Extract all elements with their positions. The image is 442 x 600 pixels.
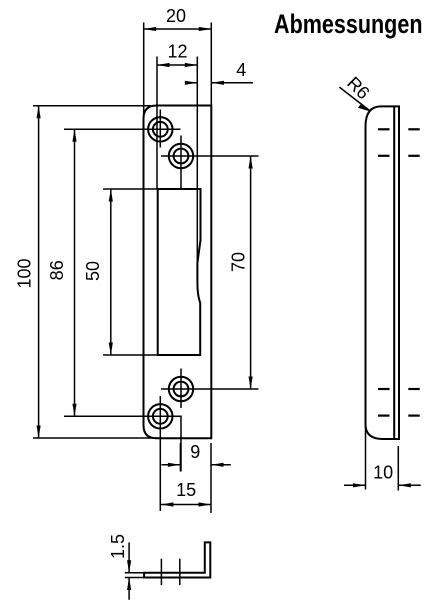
svg-text:1.5: 1.5 [108,534,128,559]
svg-text:15: 15 [176,480,196,500]
bend line [196,106,198,264]
svg-text:100: 100 [15,258,35,288]
dimension 86 [47,129,77,416]
side view hole dashes row 4 [378,415,420,417]
dimension 100 [15,106,158,438]
dimension 10 [344,425,421,491]
hole H2 top inner [161,136,259,190]
svg-text:20: 20 [166,6,186,26]
svg-text:86: 86 [47,260,67,280]
side view hole dashes row 2 [378,155,420,157]
hole H1 top outer [64,110,181,148]
bottom detail centerline right [179,559,181,585]
svg-text:70: 70 [228,252,248,272]
bottom detail extension lines [125,572,144,574]
svg-text:50: 50 [83,261,103,281]
dimension 20 [144,6,212,114]
dimension 50 [83,189,158,355]
dimension 1.5 [108,534,131,600]
bottom detail centerline left [160,559,162,585]
svg-text:Abmessungen: Abmessungen [274,9,423,39]
svg-text:4: 4 [236,60,246,80]
side view hole dashes row 1 [378,128,420,130]
svg-text:10: 10 [373,463,393,483]
hole H4 bottom outer [64,396,181,511]
dimension 9 [162,442,231,513]
side view inner line [393,106,395,439]
side view hole dashes row 3 [378,388,420,390]
latch slot [158,189,201,355]
svg-text:12: 12 [167,42,187,62]
bottom detail L-profile [144,542,210,577]
side view outline [366,106,400,439]
hole H3 bottom inner [161,369,259,472]
svg-text:R6: R6 [343,73,373,103]
plate outline (front view) [144,106,212,439]
dimension 4 [185,60,253,85]
dimension 70 [228,156,252,389]
svg-text:9: 9 [190,442,200,462]
label R6 with leader [339,73,373,112]
dimension 12 [157,42,197,190]
dimension 15 [161,480,211,507]
